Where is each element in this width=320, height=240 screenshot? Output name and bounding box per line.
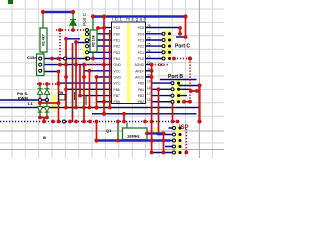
svg-text:24: 24 bbox=[147, 49, 151, 53]
svg-text:PWM: PWM bbox=[18, 96, 28, 101]
svg-text:Port B: Port B bbox=[168, 74, 183, 80]
svg-text:R2 10k: R2 10k bbox=[92, 35, 96, 47]
svg-text:Q1: Q1 bbox=[106, 128, 112, 133]
svg-text:26: 26 bbox=[147, 37, 151, 41]
svg-text:PD0: PD0 bbox=[114, 32, 121, 36]
svg-text:PB2: PB2 bbox=[138, 100, 144, 104]
svg-text:AGND: AGND bbox=[134, 63, 144, 67]
svg-text:PD2: PD2 bbox=[114, 45, 121, 49]
svg-text:PC6: PC6 bbox=[114, 26, 121, 30]
svg-text:PC2: PC2 bbox=[138, 45, 145, 49]
svg-text:AREF: AREF bbox=[135, 69, 144, 73]
svg-text:Port C: Port C bbox=[82, 12, 87, 26]
svg-text:PD3: PD3 bbox=[114, 51, 121, 55]
svg-text:PD1: PD1 bbox=[114, 39, 121, 43]
svg-text:23: 23 bbox=[147, 55, 151, 59]
svg-text:PB6: PB6 bbox=[114, 88, 120, 92]
svg-text:PC4: PC4 bbox=[138, 32, 145, 36]
svg-text:AVCC: AVCC bbox=[135, 76, 145, 80]
svg-text:VCC: VCC bbox=[114, 82, 122, 86]
svg-text:PC0: PC0 bbox=[138, 57, 145, 61]
svg-text:PC5: PC5 bbox=[138, 26, 145, 30]
svg-text:L1: L1 bbox=[28, 101, 33, 106]
svg-text:16: 16 bbox=[147, 98, 151, 102]
svg-text:R1 4k7: R1 4k7 bbox=[42, 34, 46, 46]
svg-text:17: 17 bbox=[147, 92, 151, 96]
svg-text:GND: GND bbox=[114, 76, 122, 80]
svg-text:PC3: PC3 bbox=[138, 39, 145, 43]
svg-text:PC1: PC1 bbox=[138, 51, 145, 55]
svg-text:Port C: Port C bbox=[175, 44, 190, 50]
svg-text:C15n: C15n bbox=[27, 55, 37, 60]
svg-text:PB5: PB5 bbox=[138, 82, 144, 86]
svg-text:PB7: PB7 bbox=[114, 94, 120, 98]
svg-text:28: 28 bbox=[147, 24, 151, 28]
svg-text:PD5: PD5 bbox=[114, 100, 121, 104]
svg-text:PB4: PB4 bbox=[138, 88, 144, 92]
svg-text:GND: GND bbox=[114, 63, 122, 67]
svg-text:PB3: PB3 bbox=[138, 94, 144, 98]
svg-text:19: 19 bbox=[147, 80, 151, 84]
svg-text:18: 18 bbox=[147, 86, 151, 90]
svg-text:VCC: VCC bbox=[114, 69, 122, 73]
svg-text:III: III bbox=[43, 135, 46, 140]
svg-text:25: 25 bbox=[147, 43, 151, 47]
svg-text:27: 27 bbox=[147, 30, 151, 34]
svg-text:16MHz: 16MHz bbox=[127, 134, 140, 139]
svg-text:OC: OC bbox=[158, 62, 164, 67]
svg-text:IC1 mega8: IC1 mega8 bbox=[112, 17, 147, 22]
svg-text:PD4: PD4 bbox=[114, 57, 121, 61]
